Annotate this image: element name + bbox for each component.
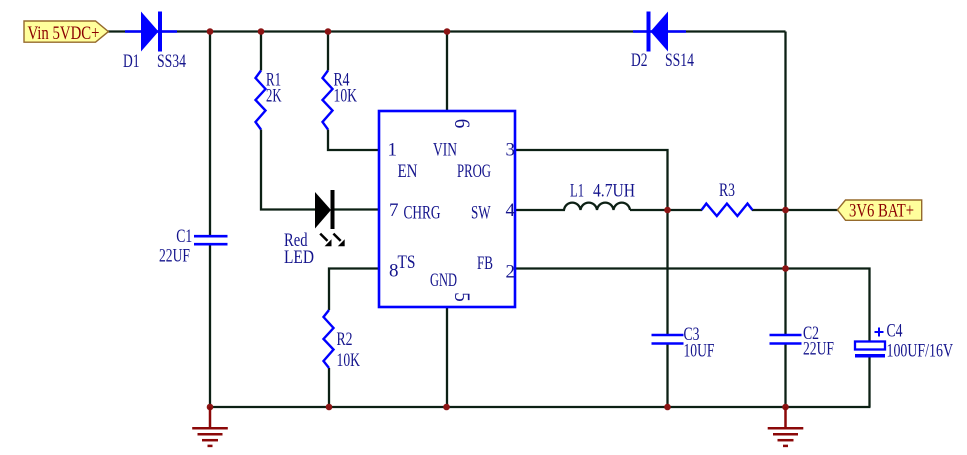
svg-text:6: 6: [450, 119, 475, 129]
capacitor C2: [770, 335, 802, 344]
pin number 4: [506, 200, 516, 221]
pin name FB: [477, 253, 493, 274]
svg-text:22UF: 22UF: [803, 339, 834, 360]
value 10UF: [684, 341, 715, 362]
junction at BAT node: [782, 207, 789, 214]
junction ground rail R2: [326, 404, 333, 411]
svg-text:SS14: SS14: [665, 50, 694, 71]
capacitor C4 (polarized): [855, 342, 885, 358]
diode D2: [633, 12, 686, 52]
pin number 6 (rotated): [450, 119, 475, 129]
LED arrow 1: [320, 234, 331, 247]
wire node to R3: [668, 209, 703, 211]
pin name SW: [471, 203, 491, 224]
wire LED cathode to pin 7: [333, 208, 379, 210]
wire R4 top: [327, 32, 329, 71]
svg-text:L1: L1: [570, 181, 584, 202]
wire pin 8 TS to R2 top: [329, 269, 379, 311]
svg-text:D2: D2: [631, 50, 648, 71]
wire R2 bottom to ground rail: [328, 368, 330, 407]
resistor R2: [324, 310, 334, 368]
wire R1 top: [260, 32, 262, 71]
pin name EN: [398, 161, 418, 182]
value 22UF: [159, 246, 190, 267]
value 10K: [334, 86, 358, 107]
svg-text:CHRG: CHRG: [404, 203, 441, 224]
pin number 5 (rotated): [450, 292, 475, 302]
svg-text:SW: SW: [471, 203, 491, 224]
svg-text:7: 7: [389, 200, 399, 221]
junction at R4 top: [325, 28, 332, 35]
wire C1 bottom to ground rail: [209, 244, 211, 407]
junction at C1 top: [207, 28, 214, 35]
wire pin 2 FB to C4: [515, 269, 870, 343]
wire R1 bottom to LED anode: [261, 130, 315, 210]
wire L1 to node: [630, 209, 668, 211]
wire BAT node to flag: [786, 209, 839, 211]
svg-text:22UF: 22UF: [159, 246, 190, 267]
wire SW node vertical to C3: [666, 210, 668, 335]
inductor L1: [564, 203, 630, 210]
svg-text:C1: C1: [176, 226, 192, 247]
ground symbol right: [768, 407, 804, 446]
label D2: [631, 50, 648, 71]
junction ground rail C3: [664, 404, 671, 411]
label C1: [176, 226, 192, 247]
label R4: [334, 70, 350, 91]
wire R3 to BAT node: [752, 209, 786, 211]
svg-text:5: 5: [450, 292, 475, 302]
svg-text:D1: D1: [123, 51, 140, 72]
pin number 3: [506, 140, 516, 161]
value 2K: [266, 86, 282, 107]
op IC U1 body: [379, 111, 515, 307]
svg-text:2: 2: [506, 262, 516, 283]
power port Vin 5VDC+: [24, 21, 108, 44]
svg-text:C4: C4: [887, 321, 903, 342]
wire C1 branch from top rail: [209, 32, 211, 237]
junction at FB node: [782, 265, 789, 272]
value SS14: [665, 50, 694, 71]
value SS34: [157, 51, 186, 72]
label LED: [284, 247, 314, 268]
svg-text:10K: 10K: [334, 86, 358, 107]
label D1: [123, 51, 140, 72]
label C4: [887, 321, 903, 342]
label R1: [266, 70, 281, 91]
junction ground rail C2: [782, 404, 789, 411]
label C3: [684, 324, 700, 345]
svg-text:3V6 BAT+: 3V6 BAT+: [849, 201, 914, 222]
junction ground rail pin5: [443, 404, 450, 411]
diode D1: [125, 12, 177, 52]
pin name TS: [398, 252, 416, 273]
svg-text:1: 1: [388, 140, 398, 161]
label Red: [284, 230, 308, 251]
svg-text:100UF/16V: 100UF/16V: [887, 340, 954, 361]
value 100UF/16V: [887, 340, 954, 361]
svg-text:SS34: SS34: [157, 51, 186, 72]
pin name VIN: [433, 140, 457, 161]
wire R4 bottom to pin 1: [328, 130, 379, 151]
pin name GND: [430, 270, 457, 291]
svg-text:4.7UH: 4.7UH: [593, 181, 635, 202]
pin number 1: [388, 140, 398, 161]
value 4.7UH: [593, 181, 635, 202]
svg-text:10UF: 10UF: [684, 341, 715, 362]
power port 3V6 BAT+: [837, 200, 921, 222]
svg-text:TS: TS: [398, 252, 416, 273]
wire pin 3 PROG to SW node: [515, 150, 668, 210]
LED arrow 2: [333, 234, 344, 247]
pin number 8: [389, 260, 399, 281]
junction ground rail C1: [207, 404, 214, 411]
wire C4 bottom to ground rail: [868, 357, 870, 407]
junction at VIN stub: [444, 28, 451, 35]
wire VIN pin 6 stub: [446, 32, 448, 112]
pin number 2: [506, 262, 516, 283]
wire right vertical drop from top rail to C2: [784, 32, 786, 335]
wire GND pin 5 stub to ground rail: [446, 307, 448, 407]
pin number 7: [389, 200, 399, 221]
wire ground rail: [209, 406, 871, 408]
junction at SW node: [664, 207, 671, 214]
value 22UF: [803, 339, 834, 360]
wire C3 bottom to ground rail: [666, 343, 668, 407]
label R3: [719, 180, 735, 201]
svg-text:R3: R3: [719, 180, 735, 201]
label L1: [570, 181, 584, 202]
resistor R3: [702, 204, 753, 216]
svg-text:PROG: PROG: [457, 161, 491, 182]
capacitor C3: [652, 335, 684, 344]
svg-text:GND: GND: [430, 270, 457, 291]
wire top rail: [108, 30, 786, 32]
label C2: [803, 323, 819, 344]
wire C2 bottom to ground rail: [784, 344, 786, 407]
resistor R4: [323, 71, 333, 130]
junction at R1 top: [258, 28, 265, 35]
resistor R1: [256, 71, 266, 130]
svg-text:EN: EN: [398, 161, 418, 182]
ground symbol left: [192, 407, 228, 446]
svg-text:4: 4: [506, 200, 516, 221]
svg-text:VIN: VIN: [433, 140, 457, 161]
capacitor C1: [194, 236, 228, 244]
wire pin 4 SW to L1: [515, 209, 565, 211]
value 10K: [337, 350, 361, 371]
pin name PROG: [457, 161, 491, 182]
label R2: [337, 329, 353, 350]
svg-text:LED: LED: [284, 247, 314, 268]
svg-text:Vin 5VDC+: Vin 5VDC+: [28, 23, 100, 44]
svg-text:10K: 10K: [337, 350, 361, 371]
svg-text:3: 3: [506, 140, 516, 161]
plus mark C4: [875, 328, 884, 337]
svg-text:R2: R2: [337, 329, 353, 350]
svg-text:2K: 2K: [266, 86, 282, 107]
pin name CHRG: [404, 203, 441, 224]
LED D3 (Red LED): [315, 190, 335, 229]
svg-text:FB: FB: [477, 253, 493, 274]
